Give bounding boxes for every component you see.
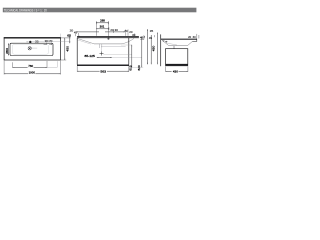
- countertop slab bottom: [77, 37, 145, 39]
- dim 65 extension line (tap level): [32, 41, 71, 43]
- dim 450 line: [64, 38, 66, 60]
- ticks left: [75, 34, 77, 36]
- tick under 35: [154, 35, 156, 37]
- bowl left slant: [162, 40, 169, 46]
- siphon cross: [100, 53, 104, 55]
- bowl left slant inner: [78, 40, 92, 44]
- wall line: [160, 34, 162, 66]
- drain symbol X cross: [28, 47, 31, 50]
- chained dim line: [76, 31, 99, 33]
- tap hole cross ticks: [26, 41, 28, 43]
- vanity side bottom thick: [165, 64, 188, 66]
- svg-text:450: 450: [65, 46, 69, 52]
- drain center dot: [29, 48, 30, 49]
- tap cross side: [165, 41, 167, 43]
- top-right small dim ticks: [196, 34, 198, 39]
- dim 430 ext verticals: [165, 66, 167, 71]
- svg-text:288: 288: [100, 19, 105, 23]
- svg-text:820: 820: [137, 65, 141, 71]
- rim-height label 45 (breaks slab line): [139, 35, 145, 40]
- bowl right rise: [121, 38, 134, 44]
- dim 65 line with outside arrows: [69, 36, 71, 43]
- tick above rect top right: [59, 34, 61, 38]
- svg-text:65: 65: [67, 33, 71, 37]
- dim line B: [156, 33, 158, 65]
- basin underside line: [101, 46, 126, 48]
- dim 1000 line: [4, 73, 28, 75]
- basin front edge: [196, 39, 198, 42]
- dim 760 line: [13, 66, 28, 68]
- leader arrow to slab left end: [77, 35, 79, 38]
- dim 450 extension lines: [61, 37, 71, 39]
- vanity right edge: [128, 38, 130, 65]
- countertop slab top thick: [77, 36, 145, 38]
- drain leader line: [32, 47, 38, 49]
- plan back edge thick: [4, 37, 61, 39]
- leader bowl bottom to col1: [121, 44, 132, 46]
- svg-text:760: 760: [28, 64, 33, 68]
- dim 288 line: [96, 22, 108, 24]
- basin underside front: [192, 40, 197, 42]
- basin rim rounded rect: [10, 43, 53, 55]
- svg-text:615: 615: [129, 65, 133, 71]
- svg-text:TECHNICAL DRAWINGS / S = 1 : 2: TECHNICAL DRAWINGS / S = 1 : 20: [4, 8, 47, 12]
- basin side: top surface thick: [161, 38, 197, 40]
- svg-text:301: 301: [100, 25, 105, 29]
- floor line right of vanity: [129, 66, 143, 68]
- page background: [0, 0, 200, 104]
- header bar: [3, 8, 197, 13]
- vanity left edge: [76, 38, 78, 65]
- drain stubs front: [98, 44, 100, 48]
- ext verticals 563: [76, 66, 78, 72]
- plan outer rect: [4, 38, 60, 60]
- bowl flat bottom: [169, 45, 188, 47]
- dim 760 extension lines: [12, 62, 14, 68]
- height dim col1: [131, 45, 133, 68]
- tap cross front: [107, 38, 110, 40]
- leader to col2 at 57.6: [112, 57, 142, 59]
- drain stubs side: [172, 46, 174, 49]
- tap hole: [29, 41, 31, 43]
- svg-text:450: 450: [151, 45, 155, 51]
- dim line A: [150, 35, 152, 64]
- small ticks under labels: [45, 43, 47, 46]
- dim 301 line: [96, 28, 109, 30]
- ext line left of 288/301: [95, 21, 97, 36]
- drain pipe vertical: [101, 48, 103, 52]
- svg-text:430: 430: [173, 69, 178, 73]
- drain symbol outer circle: [28, 47, 31, 50]
- svg-text:563: 563: [100, 69, 106, 73]
- vanity side box: [166, 49, 188, 64]
- dim 85-125 line: [97, 57, 112, 59]
- bowl left slant: [78, 39, 95, 44]
- dim 563 line: [77, 70, 99, 72]
- bowl right rise: [188, 42, 193, 46]
- height dim col2: [141, 37, 143, 68]
- svg-text:1000: 1000: [29, 71, 36, 75]
- leader slant: [167, 43, 177, 45]
- dim 430 line: [166, 70, 172, 72]
- svg-text:85-125: 85-125: [85, 54, 96, 58]
- leader at 54.7 to col1: [104, 54, 132, 56]
- bowl flat bottom: [94, 43, 121, 45]
- svg-text:260: 260: [5, 48, 9, 54]
- short dim line between views: [147, 29, 149, 64]
- dim 260 (basin depth, inside left) line: [8, 43, 10, 55]
- dim 1000 extension lines: [3, 61, 5, 75]
- ext line tap center: [107, 21, 109, 37]
- ticks right: [113, 29, 115, 33]
- basin inner line: [12, 44, 48, 54]
- aux bracket right of 760: [47, 66, 57, 68]
- small circle detail near wall: [163, 40, 164, 41]
- vanity bottom thick: [77, 64, 129, 66]
